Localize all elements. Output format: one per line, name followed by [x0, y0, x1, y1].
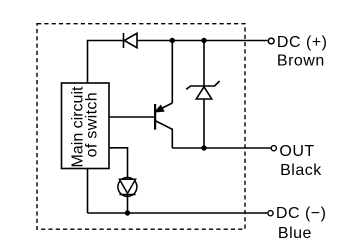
node: junction dot emitter / top rail — [170, 38, 175, 43]
LED triangle — [119, 179, 135, 193]
dashed enclosure border — [37, 24, 245, 230]
terminal circle DC- — [268, 211, 273, 216]
node: junction dot zener / top rail — [201, 38, 206, 43]
LED indicator circle — [118, 177, 137, 196]
wire: LED bottom lead — [127, 195, 129, 214]
svg-text:DC (−): DC (−) — [276, 205, 327, 222]
terminal circle OUT — [271, 146, 276, 151]
diode D1 cathode bar — [123, 33, 125, 48]
node: junction dot LED / bottom rail — [125, 210, 130, 215]
wire: top rail right segment (diode to DC+ terminal) — [137, 40, 268, 42]
transistor Q1 base bar — [154, 104, 156, 130]
terminal circle DC+ — [268, 38, 274, 44]
wire: main circuit box to LED — [109, 148, 128, 179]
transistor Q1 collector lead — [156, 121, 173, 148]
wire: emitter drop from top rail — [171, 41, 173, 104]
svg-text:of switch: of switch — [83, 92, 100, 157]
wire: top rail left segment (corner to diode cathode) — [88, 41, 124, 84]
wire: zener bottom lead — [203, 99, 205, 148]
transistor Q1 (PNP) emitter lead with arrow — [156, 103, 172, 111]
wire: OUT rail — [172, 147, 270, 149]
svg-text:Brown: Brown — [277, 53, 325, 70]
svg-text:OUT: OUT — [279, 143, 314, 160]
wire: zener top lead — [203, 41, 205, 87]
svg-text:DC (+): DC (+) — [277, 34, 328, 51]
wire: bottom rail to DC- terminal — [88, 212, 268, 214]
svg-text:Black: Black — [280, 162, 322, 179]
diode D1 triangle — [124, 33, 137, 47]
node: junction dot zener / OUT rail — [201, 145, 206, 150]
svg-text:Blue: Blue — [278, 225, 312, 242]
main circuit block U1 — [62, 83, 110, 169]
zener diode ZD cathode bar with bent ends — [186, 81, 219, 89]
zener diode ZD triangle — [196, 87, 211, 99]
wire: base lead from main circuit box — [109, 116, 154, 118]
wire: box bottom drop — [87, 169, 89, 214]
LED cathode bar — [119, 194, 135, 196]
